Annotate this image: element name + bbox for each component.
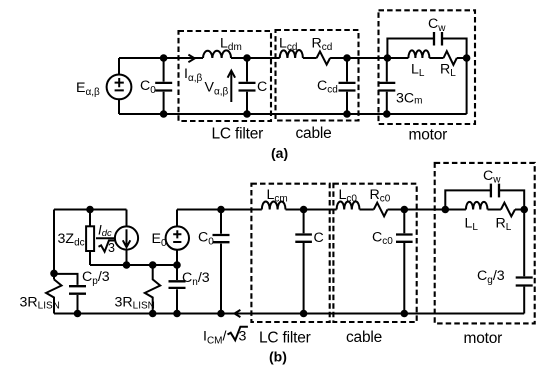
- cable box (a): [276, 30, 359, 121]
- voltage source E_ab: [107, 75, 132, 100]
- node dot b12: [300, 310, 308, 318]
- svg-text:cable: cable: [346, 329, 382, 346]
- svg-text:motor: motor: [464, 330, 503, 347]
- node dot a4: [243, 110, 251, 118]
- inductor LL (b): [466, 202, 488, 210]
- capacitor C (a): [246, 58, 248, 114]
- wire left branch (b): [53, 210, 55, 280]
- inductor Ldm: [203, 50, 231, 58]
- motor box (b): [435, 163, 535, 324]
- svg-text:C: C: [257, 79, 267, 95]
- node dot a8: [463, 54, 471, 62]
- inductor LL (a): [408, 50, 429, 58]
- arrow I_CM: [235, 310, 241, 317]
- arrow V_ab: [230, 72, 232, 103]
- node dot a1: [160, 54, 168, 62]
- node dot a7: [384, 54, 392, 62]
- node dot b6: [173, 261, 181, 269]
- inductor Lcm: [262, 202, 286, 210]
- node dot b7: [149, 310, 157, 318]
- inductor Lcd: [280, 50, 303, 58]
- svg-text:(a): (a): [271, 145, 288, 161]
- capacitor Cn/3: [176, 265, 178, 314]
- inductor Lc0: [337, 201, 360, 209]
- capacitor Ccd: [346, 58, 348, 114]
- impedance 3Zdc: [89, 210, 91, 266]
- wire Cp branch: [54, 274, 78, 314]
- label Idc/sqrt3: [96, 223, 116, 256]
- wire Cw branch (b): [445, 190, 524, 209]
- wire bottom rail (a): [119, 113, 467, 115]
- node dot a6: [343, 110, 351, 118]
- voltage source E0: [176, 210, 178, 266]
- svg-text:(b): (b): [269, 349, 287, 365]
- wire bottom rail (b): [54, 313, 524, 315]
- node dot b8: [173, 310, 181, 318]
- wire top rail (a): [119, 57, 467, 59]
- capacitor Cp/3: [69, 286, 86, 294]
- wire middle rail (b): [90, 264, 177, 266]
- node dot b5: [149, 261, 157, 269]
- node dot b9: [217, 206, 225, 214]
- capacitor C0 (b): [220, 210, 222, 314]
- resistor 3R_LISN 1: [46, 279, 61, 313]
- svg-text:C: C: [314, 230, 324, 246]
- resistor 3R_LISN 2: [145, 265, 160, 314]
- node dot a5: [343, 54, 351, 62]
- capacitor Cc0: [403, 210, 405, 314]
- svg-text:LC filter: LC filter: [259, 329, 311, 346]
- svg-text:cable: cable: [296, 125, 332, 142]
- resistor Rcd: [317, 51, 331, 64]
- svg-text:LC filter: LC filter: [212, 125, 264, 142]
- node dot a3: [243, 54, 251, 62]
- node dot a2: [160, 110, 168, 118]
- cable box (b): [333, 184, 416, 322]
- node dot a9: [383, 110, 391, 118]
- label I_CM/sqrt3: [203, 327, 248, 347]
- node dot b2: [74, 310, 82, 318]
- resistor Rc0: [374, 203, 388, 217]
- capacitor Cg/3: [523, 210, 525, 314]
- resistor RL (b): [501, 203, 515, 217]
- node dot b11: [300, 206, 308, 214]
- node dot b3: [86, 206, 94, 214]
- capacitor C (b): [303, 210, 305, 314]
- LC filter box (a): [179, 31, 272, 121]
- svg-text:motor: motor: [409, 127, 448, 144]
- capacitor C0 (a): [163, 58, 165, 114]
- current arrow I_ab: [188, 55, 194, 63]
- wire Cw branch (a): [387, 39, 466, 59]
- capacitor 3Cm: [386, 58, 388, 114]
- node dot b1: [50, 270, 58, 278]
- capacitor Cw (b): [491, 184, 499, 198]
- wire top rail right (b): [177, 209, 524, 211]
- node dot b4: [123, 261, 131, 269]
- capacitor Cw (a): [434, 32, 442, 46]
- node dot b15: [442, 206, 450, 214]
- node dot b16: [520, 206, 528, 214]
- wire source branch (a): [118, 58, 120, 114]
- resistor RL (a): [444, 51, 457, 65]
- motor box (a): [379, 10, 476, 124]
- wire top rail left (b): [54, 209, 127, 211]
- svg-text:3: 3: [239, 329, 247, 345]
- node dot b14: [401, 310, 409, 318]
- node dot b13: [401, 206, 409, 214]
- svg-text:3: 3: [108, 241, 115, 255]
- LC filter box (b): [251, 184, 329, 322]
- wire motor right (a): [466, 58, 468, 114]
- node dot b10: [217, 310, 225, 318]
- current source Idc: [126, 210, 128, 266]
